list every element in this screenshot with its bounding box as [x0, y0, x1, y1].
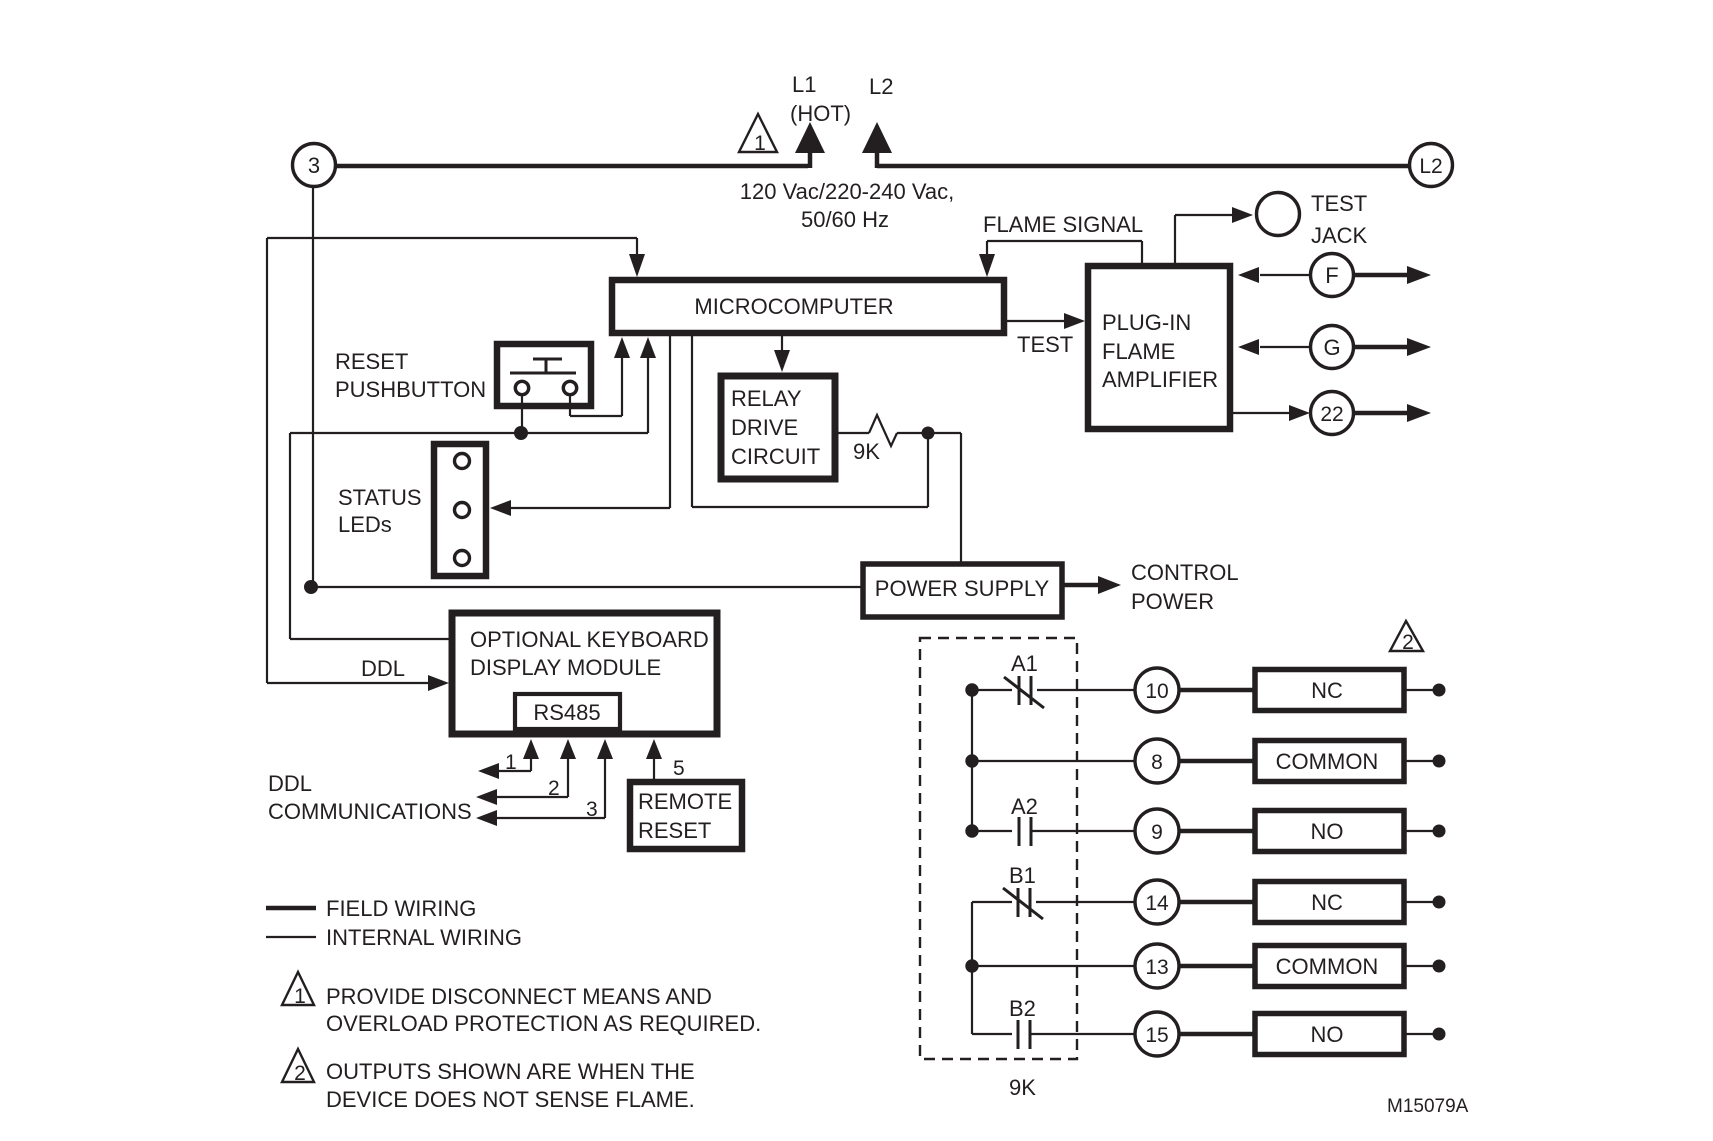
legend field wiring	[266, 896, 476, 921]
svg-text:TEST: TEST	[1311, 191, 1367, 216]
svg-text:RESET: RESET	[638, 818, 711, 843]
svg-text:8: 8	[1151, 751, 1163, 774]
svg-text:FIELD WIRING: FIELD WIRING	[326, 896, 476, 921]
junction dot A common	[965, 754, 978, 767]
svg-text:9K: 9K	[853, 439, 880, 464]
field dot 10	[1433, 684, 1446, 697]
svg-text:JACK: JACK	[1311, 223, 1368, 248]
wire pushbutton right leg to microcomputer	[570, 337, 630, 416]
wire NO lower to field dot	[1406, 1033, 1434, 1035]
svg-text:POWER: POWER	[1131, 589, 1214, 614]
svg-text:B1: B1	[1009, 863, 1036, 888]
note triangle 1	[282, 972, 314, 1008]
note 2 text	[326, 1059, 695, 1112]
svg-text:B2: B2	[1009, 996, 1036, 1021]
terminal box NC upper	[1255, 670, 1404, 711]
svg-text:PROVIDE DISCONNECT MEANS AND: PROVIDE DISCONNECT MEANS AND	[326, 984, 712, 1009]
svg-text:COMMON: COMMON	[1276, 954, 1379, 979]
svg-text:1: 1	[505, 751, 517, 774]
terminal arrow L2	[862, 122, 892, 168]
svg-text:OVERLOAD PROTECTION AS REQUIRE: OVERLOAD PROTECTION AS REQUIRED.	[326, 1011, 761, 1036]
wire common A row	[972, 760, 1136, 762]
svg-text:FLAME: FLAME	[1102, 339, 1175, 364]
wire reset bus horizontal	[290, 432, 648, 434]
terminal box COMMON lower	[1255, 946, 1404, 987]
wire DDL comm line 3	[476, 739, 613, 826]
svg-text:CIRCUIT: CIRCUIT	[731, 444, 820, 469]
svg-text:MICROCOMPUTER: MICROCOMPUTER	[694, 294, 893, 319]
wire TEST output	[1007, 313, 1085, 329]
junction dot A2	[965, 824, 978, 837]
contact A2 NO	[972, 817, 1136, 846]
svg-text:PUSHBUTTON: PUSHBUTTON	[335, 377, 486, 402]
svg-text:NO: NO	[1311, 819, 1344, 844]
svg-text:2: 2	[294, 1062, 306, 1085]
wire reset line to keyboard module	[290, 433, 452, 639]
terminal circle 15	[1135, 1012, 1179, 1056]
note 1 text	[326, 984, 761, 1036]
wire to power supply	[311, 586, 862, 588]
terminal circle 8	[1135, 739, 1179, 783]
wire L1 branch to microcomputer	[267, 238, 645, 277]
junction dot 9K node	[922, 427, 935, 440]
wire 14 to NC	[1179, 900, 1255, 905]
wire field L1 feed	[335, 164, 808, 169]
svg-text:COMMON: COMMON	[1276, 749, 1379, 774]
relay drive circuit box	[721, 376, 835, 479]
contact B2 NO	[972, 1020, 1136, 1049]
field arrow from F	[1354, 266, 1431, 284]
svg-text:AMPLIFIER: AMPLIFIER	[1102, 367, 1218, 392]
wire F to amplifier	[1238, 267, 1310, 283]
svg-text:5: 5	[673, 757, 685, 780]
svg-text:M15079A: M15079A	[1387, 1096, 1469, 1117]
contact B1 NC	[972, 888, 1136, 919]
svg-text:RS485: RS485	[533, 700, 600, 725]
wire reset bus to microcomputer	[640, 337, 656, 433]
svg-text:L1: L1	[792, 72, 816, 97]
svg-text:DEVICE DOES NOT SENSE FLAME.: DEVICE DOES NOT SENSE FLAME.	[326, 1087, 695, 1112]
wire 9K node to microcomputer	[692, 336, 928, 507]
status LEDs box	[434, 444, 486, 576]
svg-text:A1: A1	[1011, 651, 1038, 676]
svg-text:1: 1	[754, 132, 766, 155]
svg-text:DRIVE: DRIVE	[731, 415, 798, 440]
label RESET PUSHBUTTON	[335, 349, 486, 402]
terminal circle 3	[293, 144, 336, 187]
svg-text:A2: A2	[1011, 794, 1038, 819]
field dot 14	[1433, 896, 1446, 909]
svg-text:50/60 Hz: 50/60 Hz	[801, 207, 889, 232]
wire amplifier to 22	[1233, 405, 1310, 421]
wire DDL comm line 2	[476, 739, 576, 805]
field dot 8	[1433, 755, 1446, 768]
svg-text:OUTPUTS SHOWN ARE WHEN THE: OUTPUTS SHOWN ARE WHEN THE	[326, 1059, 695, 1084]
microcomputer box	[612, 280, 1004, 333]
legend internal wiring	[266, 925, 522, 950]
svg-text:DDL: DDL	[361, 656, 405, 681]
wire 9 to NO	[1179, 829, 1255, 834]
field arrow from 22	[1354, 404, 1431, 422]
power supply box	[863, 564, 1062, 617]
terminal circle 14	[1135, 880, 1179, 924]
label DDL COMMUNICATIONS	[268, 771, 472, 824]
wire DDL comm line 1	[478, 739, 539, 779]
svg-text:22: 22	[1320, 403, 1343, 426]
note triangle 2	[282, 1049, 314, 1085]
svg-text:13: 13	[1145, 956, 1168, 979]
wire microcomputer to relay drive	[774, 336, 790, 372]
wire from circle 3 down	[312, 187, 314, 587]
wire COMMON lower to field dot	[1406, 965, 1434, 967]
svg-text:PLUG-IN: PLUG-IN	[1102, 310, 1191, 335]
wire common B row	[972, 965, 1136, 967]
junction dot reset bus	[514, 426, 528, 440]
svg-text:10: 10	[1145, 680, 1168, 703]
terminal circle F	[1311, 254, 1354, 297]
terminal box NO upper	[1255, 811, 1404, 852]
wire 15 to NO	[1179, 1032, 1255, 1037]
field arrow control power	[1064, 576, 1121, 594]
wire DDL arrow into keyboard module	[267, 675, 449, 691]
test jack circle	[1257, 193, 1300, 236]
field arrow from G	[1354, 338, 1431, 356]
plug-in flame amplifier box	[1088, 266, 1230, 429]
svg-text:L2: L2	[869, 74, 893, 99]
terminal circle G	[1311, 326, 1354, 369]
svg-text:COMMUNICATIONS: COMMUNICATIONS	[268, 799, 472, 824]
svg-text:POWER SUPPLY: POWER SUPPLY	[875, 576, 1050, 601]
svg-text:RESET: RESET	[335, 349, 408, 374]
label STATUS LEDs	[338, 485, 422, 537]
svg-text:NC: NC	[1311, 678, 1343, 703]
svg-text:3: 3	[586, 798, 598, 821]
wire 8 to COMMON	[1179, 759, 1255, 764]
wire NC lower to field dot	[1406, 901, 1434, 903]
field dot 13	[1433, 960, 1446, 973]
terminal box NC lower	[1255, 882, 1404, 923]
svg-text:(HOT): (HOT)	[790, 101, 851, 126]
junction dot B common	[965, 959, 978, 972]
label L1 (HOT)	[790, 72, 851, 126]
junction dot at power supply feed	[304, 580, 318, 594]
pushbutton contacts	[510, 359, 577, 395]
terminal arrow L1	[795, 122, 825, 168]
svg-text:DDL: DDL	[268, 771, 312, 796]
svg-text:INTERNAL WIRING: INTERNAL WIRING	[326, 925, 522, 950]
svg-text:2: 2	[1402, 631, 1414, 654]
svg-text:3: 3	[308, 153, 320, 178]
wire left vertical to DDL	[266, 238, 268, 683]
svg-text:9K: 9K	[1009, 1075, 1036, 1100]
svg-text:14: 14	[1145, 892, 1169, 915]
wire to test jack	[1175, 207, 1253, 263]
wire G to amplifier	[1238, 339, 1310, 355]
svg-text:15: 15	[1145, 1024, 1168, 1047]
terminal circle L2	[1410, 144, 1453, 187]
svg-text:L2: L2	[1419, 155, 1442, 178]
wire 13 to COMMON	[1179, 964, 1255, 969]
wire relay B bus	[971, 902, 973, 1034]
terminal circle 9	[1135, 809, 1179, 853]
wire flame signal	[979, 241, 1142, 277]
wire NC to field dot	[1406, 689, 1434, 691]
svg-text:TEST: TEST	[1017, 332, 1073, 357]
terminal box NO lower	[1255, 1014, 1404, 1055]
wire NO to field dot	[1406, 830, 1434, 832]
svg-text:RELAY: RELAY	[731, 386, 802, 411]
wire COMMON to field dot	[1406, 760, 1434, 762]
svg-text:REMOTE: REMOTE	[638, 789, 732, 814]
terminal circle 10	[1135, 668, 1179, 712]
svg-text:F: F	[1325, 263, 1338, 288]
svg-text:NC: NC	[1311, 890, 1343, 915]
terminal circle 22	[1311, 392, 1354, 435]
junction dot A1	[965, 683, 978, 696]
field dot 9	[1433, 825, 1446, 838]
svg-text:CONTROL: CONTROL	[1131, 560, 1239, 585]
wire pushbutton left leg	[521, 395, 523, 433]
relay contacts dashed enclosure	[920, 638, 1077, 1059]
svg-text:LEDs: LEDs	[338, 512, 392, 537]
optional keyboard display module box	[452, 613, 717, 734]
terminal circle 13	[1135, 944, 1179, 988]
svg-text:2: 2	[548, 777, 560, 800]
note triangle 2 outputs	[1390, 621, 1423, 654]
label TEST JACK	[1311, 191, 1368, 248]
wire field L2 feed	[877, 164, 1410, 169]
svg-text:G: G	[1323, 335, 1340, 360]
remote reset box	[630, 782, 742, 849]
svg-text:9: 9	[1151, 821, 1163, 844]
note triangle 1 top	[739, 114, 777, 155]
svg-text:FLAME SIGNAL: FLAME SIGNAL	[983, 212, 1143, 237]
RS485 box	[515, 694, 620, 729]
wire 9K node to power supply	[960, 433, 962, 564]
field dot 15	[1433, 1028, 1446, 1041]
contact A1 NC	[972, 676, 1136, 708]
svg-text:STATUS: STATUS	[338, 485, 422, 510]
resistor 9K	[838, 415, 961, 446]
terminal box COMMON upper	[1255, 741, 1404, 782]
wire microcomputer to status leds	[490, 336, 670, 516]
label CONTROL POWER	[1131, 560, 1239, 614]
svg-text:120 Vac/220-240 Vac,: 120 Vac/220-240 Vac,	[740, 179, 954, 204]
svg-text:NO: NO	[1311, 1022, 1344, 1047]
label supply voltage	[740, 179, 954, 232]
wire remote reset pin 5	[646, 739, 662, 779]
svg-text:DISPLAY MODULE: DISPLAY MODULE	[470, 655, 661, 680]
svg-text:1: 1	[294, 985, 306, 1008]
wire relay A bus	[971, 690, 973, 831]
wire 10 to NC	[1179, 688, 1255, 693]
pushbutton S1 box	[497, 344, 591, 406]
svg-text:OPTIONAL KEYBOARD: OPTIONAL KEYBOARD	[470, 627, 709, 652]
